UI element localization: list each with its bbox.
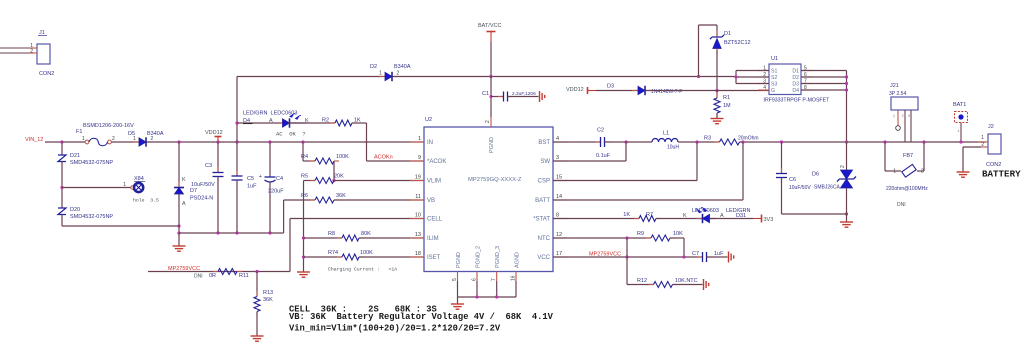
inductor L1 10uH bbox=[652, 139, 678, 143]
wire SW to L1 bbox=[626, 141, 652, 143]
svg-text:S2: S2 bbox=[771, 75, 777, 81]
svg-text:1: 1 bbox=[82, 136, 85, 142]
svg-text:SW: SW bbox=[540, 159, 550, 165]
svg-text:CSP: CSP bbox=[538, 179, 550, 185]
svg-text:FB7: FB7 bbox=[903, 153, 913, 159]
wire R6 to U2 pin 11 VB bbox=[334, 199, 424, 201]
wire gate node to U1 pin G bbox=[717, 90, 769, 92]
svg-text:1K: 1K bbox=[623, 212, 630, 218]
svg-text:K: K bbox=[683, 213, 687, 219]
resistor R5 20K bbox=[304, 180, 316, 182]
wire MP2759VCC row bbox=[148, 271, 290, 273]
wire rail up to LED row and top rail bbox=[236, 77, 238, 143]
svg-text:R3: R3 bbox=[704, 136, 711, 142]
svg-text:R5: R5 bbox=[301, 174, 308, 180]
wire top rail up-over to D1 bbox=[698, 25, 700, 77]
svg-text:2: 2 bbox=[485, 120, 491, 123]
svg-text:3P 2.54: 3P 2.54 bbox=[889, 91, 906, 97]
svg-text:U2: U2 bbox=[425, 117, 432, 123]
svg-text:BATTERY: BATTERY bbox=[982, 169, 1021, 180]
junction ISET gnd bbox=[302, 255, 305, 258]
svg-text:10uF/50V: 10uF/50V bbox=[191, 182, 215, 188]
capacitor C5 1uF bbox=[236, 142, 238, 176]
svg-text:U1: U1 bbox=[771, 56, 778, 62]
svg-text:15: 15 bbox=[556, 175, 562, 181]
svg-text:ISET: ISET bbox=[427, 255, 441, 261]
svg-text:D3: D3 bbox=[607, 84, 614, 90]
wire U2 pin 17 VCC row bbox=[553, 256, 702, 258]
svg-text:VIN_12: VIN_12 bbox=[25, 137, 43, 143]
wire CELL down to R11 row bbox=[289, 219, 291, 272]
svg-text:10uF/50V: 10uF/50V bbox=[789, 185, 811, 191]
svg-text:1: 1 bbox=[893, 114, 895, 118]
svg-text:ACOKn: ACOKn bbox=[374, 155, 393, 161]
svg-text:10uH: 10uH bbox=[667, 145, 679, 151]
wire top rail left of D2 bbox=[237, 76, 385, 78]
U1 right pin stubs bbox=[801, 70, 812, 72]
junction rail/VDD12-C3 bbox=[216, 140, 219, 143]
svg-text:+: + bbox=[259, 174, 262, 180]
junction BATT sense bbox=[741, 140, 744, 143]
svg-text:10: 10 bbox=[415, 213, 421, 219]
svg-text:10K.NTC: 10K.NTC bbox=[675, 278, 698, 284]
svg-text:36K: 36K bbox=[263, 297, 273, 303]
wire S1-S3 ladder bbox=[735, 71, 737, 84]
U2 left pin stubs bbox=[410, 141, 424, 143]
svg-text:2: 2 bbox=[902, 114, 904, 118]
svg-text:R6: R6 bbox=[301, 193, 308, 199]
J1 pin 1 bbox=[0, 47, 30, 49]
svg-text:5: 5 bbox=[452, 278, 458, 281]
junction CSP sense bbox=[695, 140, 698, 143]
svg-text:1uF: 1uF bbox=[714, 251, 724, 257]
connector J2 battery (CON2) bbox=[988, 134, 1001, 154]
svg-text:LEDC0603: LEDC0603 bbox=[692, 208, 719, 214]
svg-text:C3: C3 bbox=[205, 163, 212, 169]
svg-text:BAT/VCC: BAT/VCC bbox=[478, 23, 501, 29]
LED D4 LED/GRN LEDC0603 bbox=[276, 122, 283, 124]
wire R3 to battery node bbox=[740, 141, 987, 143]
junction gnd rail bbox=[177, 231, 180, 234]
junction rail/D21 bbox=[60, 140, 63, 143]
svg-text:VDD12: VDD12 bbox=[205, 130, 223, 136]
svg-text:1: 1 bbox=[958, 129, 960, 133]
junction R13 tap bbox=[255, 270, 258, 273]
svg-text:9: 9 bbox=[418, 155, 421, 161]
wire R8 to U2 pin 13 bbox=[359, 237, 424, 239]
junction C1 tap bbox=[489, 95, 492, 98]
wire FB7 branch bbox=[884, 142, 886, 171]
ground R5/R8/R74 bbox=[297, 272, 310, 277]
svg-text:IN: IN bbox=[427, 140, 433, 146]
svg-text:R74: R74 bbox=[328, 250, 338, 256]
ground at D7 branch bbox=[178, 233, 180, 246]
wire LED row to D4 bbox=[237, 122, 281, 124]
svg-text:S1: S1 bbox=[771, 69, 777, 75]
svg-text:VDD12: VDD12 bbox=[566, 87, 584, 93]
svg-text:3V3: 3V3 bbox=[764, 217, 774, 223]
resistor R8 80K (ILIM) bbox=[304, 237, 343, 239]
svg-text:NTC: NTC bbox=[538, 236, 551, 242]
resistor R11 0R (DNI) bbox=[213, 271, 218, 273]
svg-text:BSMD1206-200-16V: BSMD1206-200-16V bbox=[83, 123, 134, 129]
zener diode D1 BZT52C12 bbox=[716, 30, 718, 37]
junction BAT/VCC on top rail bbox=[489, 75, 492, 78]
svg-text:BAT1: BAT1 bbox=[953, 102, 966, 108]
wire VIN to F1 bbox=[45, 141, 85, 143]
svg-text:D20: D20 bbox=[70, 207, 80, 213]
svg-text:R9: R9 bbox=[637, 231, 644, 237]
capacitor C4 220uF (polarized) bbox=[269, 142, 271, 177]
svg-text:D4: D4 bbox=[792, 88, 799, 94]
svg-text:B340A: B340A bbox=[394, 64, 411, 70]
svg-text:D21: D21 bbox=[70, 153, 80, 159]
svg-text:J21: J21 bbox=[890, 83, 899, 89]
LED D31 LED/GRN LEDC0603 bbox=[696, 218, 703, 220]
resistor R9 10K bbox=[646, 237, 651, 239]
wire NTC divider down to R12 bbox=[626, 238, 628, 285]
svg-text:*STAT: *STAT bbox=[533, 217, 550, 223]
wire U2 pin 8 STAT to R7 bbox=[553, 218, 639, 220]
resistor R1 1M bbox=[716, 91, 718, 99]
svg-text:PSD24-N: PSD24-N bbox=[190, 196, 213, 202]
svg-text:IRF9333TRPGF P-MOSFET: IRF9333TRPGF P-MOSFET bbox=[764, 98, 831, 104]
svg-text:36K: 36K bbox=[336, 193, 346, 199]
svg-text:80K: 80K bbox=[361, 231, 371, 237]
junction C5/gnd bbox=[235, 231, 238, 234]
junction C6 tap bbox=[780, 140, 783, 143]
U1 left pin stubs bbox=[758, 70, 769, 72]
diode D3 1N4148W-7-F bbox=[632, 90, 638, 92]
svg-text:BST: BST bbox=[538, 140, 550, 146]
svg-text:PGND_2: PGND_2 bbox=[476, 246, 482, 268]
junction BAT1 bbox=[959, 140, 962, 143]
power symbol 3V3 bbox=[753, 218, 762, 220]
svg-text:hole 3.5: hole 3.5 bbox=[133, 198, 159, 204]
wire R9 down to C7 node bbox=[670, 237, 684, 239]
svg-text:1: 1 bbox=[123, 182, 126, 188]
wire C6 bottom to gnd node bbox=[782, 213, 847, 215]
diode D2 B340A bbox=[379, 76, 385, 78]
svg-text:16: 16 bbox=[511, 275, 517, 281]
svg-text:C7: C7 bbox=[692, 251, 699, 257]
svg-text:D3: D3 bbox=[792, 82, 799, 88]
svg-text:8: 8 bbox=[556, 213, 559, 219]
junction D1 riser bbox=[697, 75, 700, 78]
svg-text:PGND_3: PGND_3 bbox=[495, 246, 501, 268]
svg-text:2: 2 bbox=[981, 142, 984, 148]
wire rail down to D21 bbox=[61, 142, 63, 155]
junction C3/gnd bbox=[216, 231, 219, 234]
junction FB7 right bbox=[922, 140, 925, 143]
junction C2/SW bbox=[624, 140, 627, 143]
svg-text:1: 1 bbox=[379, 71, 382, 77]
svg-text:D1: D1 bbox=[724, 31, 731, 37]
wire R4 down to VLIM row bbox=[333, 161, 335, 181]
svg-text:6: 6 bbox=[472, 278, 478, 281]
wire R74 to U2 pin 18 bbox=[359, 256, 424, 258]
J21 pin 3 bbox=[910, 110, 912, 142]
svg-text:2: 2 bbox=[151, 136, 154, 142]
svg-text:20K: 20K bbox=[334, 174, 344, 180]
wire U2 pin 12 NTC to R9 bbox=[553, 237, 651, 239]
svg-text:D2: D2 bbox=[792, 75, 799, 81]
svg-text:PGND: PGND bbox=[489, 137, 495, 153]
svg-text:C4: C4 bbox=[276, 176, 283, 182]
svg-text:Charging Current : <1A: Charging Current : <1A bbox=[328, 267, 397, 273]
wire R2 down to ACOK row bbox=[352, 122, 367, 124]
junction D20-wire/D7 branch bbox=[177, 224, 180, 227]
svg-text:20mOhm: 20mOhm bbox=[738, 136, 759, 142]
svg-text:R7: R7 bbox=[646, 212, 653, 218]
mounting hole X84 (hole 3.5) bbox=[131, 186, 135, 190]
TVS diode D7 PSD24-N bbox=[178, 182, 180, 188]
wire U2 pin 10 CELL to left bbox=[290, 218, 424, 220]
svg-text:100K: 100K bbox=[360, 250, 373, 256]
ferrite bead FB7 220ohm@100MHz DNI bbox=[902, 164, 916, 177]
capacitor C2 0.1uF bbox=[595, 141, 600, 143]
svg-text:CON2: CON2 bbox=[986, 162, 1001, 168]
wire D20 down and right to D7 branch bbox=[61, 215, 63, 227]
op-amp U2 MP2759GQ-XXXX-Z body bbox=[424, 127, 553, 272]
svg-text:C2: C2 bbox=[597, 128, 604, 134]
wire D21 to D20 bbox=[61, 162, 63, 209]
junction pgnd2 bbox=[475, 295, 478, 298]
resistor R13 36K bbox=[256, 292, 258, 297]
junction rail/C4 bbox=[268, 140, 271, 143]
wire U2 bottom pins to gnd bbox=[457, 281, 459, 297]
svg-text:A: A bbox=[269, 118, 273, 124]
svg-text:MP2759VCC: MP2759VCC bbox=[589, 252, 621, 258]
svg-text:13: 13 bbox=[415, 232, 421, 238]
svg-text:2.2uF,1206: 2.2uF,1206 bbox=[512, 91, 536, 97]
svg-text:K: K bbox=[182, 177, 186, 183]
junction U1 drain node on battery wire bbox=[845, 140, 848, 143]
svg-text:BZT52C12: BZT52C12 bbox=[724, 40, 751, 46]
svg-text:4: 4 bbox=[556, 136, 559, 142]
wire BAT/VCC down to U2 pin 2 bbox=[490, 42, 492, 117]
svg-text:C1: C1 bbox=[482, 91, 489, 97]
wire J2 pin2 to gnd bbox=[963, 146, 981, 148]
resistor R3 20mOhm bbox=[715, 141, 720, 143]
wire BATT row bbox=[742, 142, 744, 200]
wire CSP row bbox=[696, 142, 698, 181]
svg-text:J2: J2 bbox=[988, 124, 994, 130]
svg-text:1: 1 bbox=[981, 135, 984, 141]
ground R1 bbox=[711, 119, 724, 124]
wire rail down to R4 bbox=[302, 142, 304, 161]
svg-text:R11: R11 bbox=[239, 273, 249, 279]
svg-text:D1: D1 bbox=[792, 69, 799, 75]
wire U2 pin 4 BST to C2 bbox=[553, 141, 601, 143]
svg-text:1: 1 bbox=[893, 169, 896, 175]
svg-text:R4: R4 bbox=[301, 154, 308, 160]
svg-text:10K: 10K bbox=[673, 231, 683, 237]
wire to mounting hole X84 bbox=[62, 187, 131, 189]
capacitor C7 1uF bbox=[697, 256, 702, 258]
J21 pin 1 no-connect bbox=[897, 110, 899, 126]
wire gnd rail up to R6 row bbox=[283, 200, 285, 233]
svg-text:17: 17 bbox=[556, 251, 562, 257]
wire top rail D2 to U1 S pins bbox=[393, 76, 736, 78]
svg-text:L1: L1 bbox=[663, 131, 669, 137]
capacitor C6 10uF/50V bbox=[781, 142, 783, 174]
resistor R2 1K bbox=[330, 122, 335, 124]
junction S2 tie bbox=[734, 75, 737, 78]
fuse F1 BSMD1206-200-16V bbox=[85, 140, 89, 144]
svg-text:BATT: BATT bbox=[535, 198, 550, 204]
junction rail/C5-LED branch bbox=[235, 140, 238, 143]
junction R4/R5/VLIM bbox=[332, 179, 335, 182]
svg-text:ILIM: ILIM bbox=[427, 236, 439, 242]
junction D2 tie bbox=[845, 75, 848, 78]
transistor U1 IRF9333TRPGF P-MOSFET body bbox=[769, 64, 801, 95]
J21 pin 2 bbox=[904, 110, 906, 142]
svg-text:12: 12 bbox=[556, 232, 562, 238]
svg-text:MP2759GQ-XXXX-Z: MP2759GQ-XXXX-Z bbox=[468, 177, 522, 183]
svg-text:100K: 100K bbox=[336, 154, 349, 160]
svg-text:*ACOK: *ACOK bbox=[427, 159, 446, 165]
wire R5 left down to analog gnd bbox=[303, 181, 305, 272]
wire R7 to LED D31 bbox=[656, 218, 703, 220]
svg-text:VLIM: VLIM bbox=[427, 179, 441, 185]
J1 pin 2 bbox=[0, 52, 30, 54]
svg-text:R1: R1 bbox=[723, 95, 730, 101]
connector J21 3P 2.54 bbox=[891, 97, 918, 110]
svg-text:Vin_min=Vlim*(100+20)/20=1.2*1: Vin_min=Vlim*(100+20)/20=1.2*120/20=7.2V bbox=[289, 324, 501, 334]
svg-text:CON2: CON2 bbox=[39, 71, 54, 77]
junction rail/D7 bbox=[177, 140, 180, 143]
svg-text:A: A bbox=[182, 201, 186, 207]
ESD diode D21 SMD4532-075NP bbox=[58, 155, 66, 162]
svg-text:1: 1 bbox=[418, 136, 421, 142]
svg-text:VB: 36K Battery Regulator Vol: VB: 36K Battery Regulator Voltage 4V / 6… bbox=[289, 312, 554, 322]
junction VCC/NTC divider bbox=[625, 255, 628, 258]
wire rail down to D7 bbox=[178, 142, 180, 188]
svg-text:2: 2 bbox=[112, 136, 115, 142]
wire VDD12 to D3 bbox=[596, 90, 638, 92]
U2 right pin stubs bbox=[553, 141, 567, 143]
svg-text:1uF: 1uF bbox=[247, 184, 257, 190]
svg-text:AGND: AGND bbox=[515, 252, 521, 268]
ground J2 bbox=[957, 172, 970, 177]
svg-text:CELL: CELL bbox=[427, 217, 443, 223]
wire D7 to ground rail bbox=[178, 194, 180, 233]
junction pgnd3 bbox=[495, 295, 498, 298]
capacitor C1 2.2uF,1206 bbox=[491, 96, 503, 98]
junction D4 tie bbox=[845, 88, 848, 91]
svg-text:220uF: 220uF bbox=[268, 189, 284, 195]
junction D3 tie bbox=[845, 82, 848, 85]
svg-text:2: 2 bbox=[840, 165, 846, 168]
resistor R12 10K.NTC bbox=[627, 284, 654, 286]
wire R13 to gnd bbox=[256, 272, 258, 297]
svg-text:0.1uF: 0.1uF bbox=[596, 153, 611, 159]
wire ground rail C3-C4 bbox=[179, 232, 284, 234]
svg-text:14: 14 bbox=[556, 194, 562, 200]
svg-text:R13: R13 bbox=[263, 290, 273, 296]
svg-text:VB: VB bbox=[427, 198, 435, 204]
svg-text:S3: S3 bbox=[771, 82, 777, 88]
svg-text:SMBJ26CA: SMBJ26CA bbox=[814, 185, 841, 191]
svg-text:DNI: DNI bbox=[194, 274, 203, 280]
ground (sideways) after R12 bbox=[704, 279, 709, 290]
resistor R6 36K bbox=[310, 199, 315, 201]
svg-text:220ohm@100MHz: 220ohm@100MHz bbox=[886, 186, 928, 192]
wire L1 to R3 bbox=[678, 141, 720, 143]
junction NTC divider bbox=[625, 236, 628, 239]
svg-text:SMD4532-075NP: SMD4532-075NP bbox=[70, 214, 113, 220]
svg-text:SMD4532-075NP: SMD4532-075NP bbox=[70, 160, 113, 166]
resistor R4 100K bbox=[303, 160, 315, 162]
wire C2 to SW node bbox=[605, 141, 627, 143]
wire D3 to gate node bbox=[646, 90, 717, 92]
connector J1 (CON2) input bbox=[37, 44, 50, 64]
svg-text:J1: J1 bbox=[39, 30, 45, 36]
resistor R74 100K (ISET) bbox=[304, 256, 343, 258]
U2 top pin 2 PGND bbox=[490, 117, 492, 127]
svg-text:2: 2 bbox=[921, 169, 924, 175]
svg-text:AC OK ?: AC OK ? bbox=[276, 131, 306, 138]
capacitor C3 10uF/50V bbox=[217, 142, 219, 173]
U2 bottom pins 5 6 7 16 bbox=[457, 272, 459, 282]
svg-text:MP2759VCC: MP2759VCC bbox=[168, 266, 200, 272]
ESD diode D20 SMD4532-075NP bbox=[58, 208, 66, 215]
wire BAT1 to battery wire bbox=[960, 123, 962, 143]
wire main rail D5 to U2 pin IN bbox=[147, 141, 424, 143]
svg-text:R8: R8 bbox=[328, 231, 335, 237]
svg-text:1: 1 bbox=[133, 136, 136, 142]
svg-text:VCC: VCC bbox=[537, 255, 550, 261]
ground (sideways) after C1 bbox=[540, 91, 545, 102]
wire ACOK row to U2 pin 9 bbox=[367, 160, 425, 162]
junction ILIM gnd bbox=[302, 236, 305, 239]
resistor R7 1K bbox=[634, 218, 639, 220]
diode D5 B340A bbox=[133, 141, 139, 143]
svg-text:3: 3 bbox=[908, 114, 910, 118]
junction rail/R4 feed bbox=[301, 140, 304, 143]
TVS diode D6 SMBJ26CA bbox=[846, 142, 848, 170]
svg-text:D4: D4 bbox=[243, 118, 250, 124]
ground U2 PGND bbox=[451, 304, 464, 309]
svg-text:F1: F1 bbox=[76, 129, 82, 135]
svg-text:LED/GRN LEDC0603: LED/GRN LEDC0603 bbox=[243, 111, 297, 117]
svg-text:DNI: DNI bbox=[897, 202, 906, 208]
svg-text:19: 19 bbox=[415, 175, 421, 181]
svg-text:0R: 0R bbox=[209, 273, 216, 279]
junction VCC/R9 bbox=[682, 255, 685, 258]
svg-text:G: G bbox=[771, 88, 775, 94]
junction LED row bbox=[235, 121, 238, 124]
ground C6/D6 bbox=[846, 214, 848, 222]
J2 pin 1 bbox=[978, 141, 988, 143]
junction FB7 left bbox=[883, 140, 886, 143]
ground (sideways) after C7 bbox=[729, 252, 734, 263]
ground R13 bbox=[251, 336, 264, 341]
svg-text:2: 2 bbox=[397, 71, 400, 77]
wire VLIM row to U2 pin 19 bbox=[334, 180, 424, 182]
wire D1 anode down across rail to node bbox=[716, 50, 718, 91]
svg-text:R12: R12 bbox=[637, 278, 647, 284]
wire R12 to gnd bbox=[673, 284, 703, 286]
junction C4/gnd bbox=[268, 231, 271, 234]
svg-text:11: 11 bbox=[415, 194, 421, 200]
svg-text:18: 18 bbox=[415, 251, 421, 257]
J2 pin 2 bbox=[981, 146, 988, 148]
svg-text:7: 7 bbox=[491, 278, 497, 281]
wire D31 to 3V3 bbox=[710, 218, 753, 220]
svg-text:PGND: PGND bbox=[456, 252, 462, 268]
